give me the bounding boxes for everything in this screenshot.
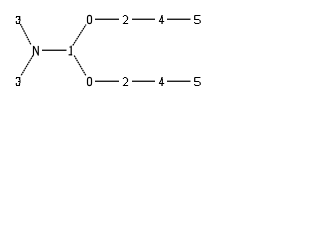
atom label 3 (bottom-left methyl) [16, 77, 21, 86]
wire O-2 bottom horizontal [95, 80, 119, 82]
atom label 4 (bottom) [159, 77, 164, 86]
wire 2-4 bottom horizontal [132, 80, 155, 82]
atom label 3 (top-left methyl) [16, 16, 21, 24]
wire 1-O top diagonal [73, 25, 86, 46]
atom O (top oxygen) [88, 16, 92, 24]
atom label 5 (bottom) [194, 77, 201, 86]
wire 1-O bottom diagonal [74, 56, 86, 76]
chemical structure diagram: (3)2N-1(-O-2-4-5)2 acetal-like skeleton [0, 0, 224, 100]
atom N (amine nitrogen) [33, 46, 39, 56]
wire 4-5 top horizontal [167, 18, 191, 20]
wire O-2 top horizontal [95, 18, 119, 20]
atom label 1 (central CH) [69, 46, 73, 56]
atom label 2 (top) [123, 15, 128, 24]
wire 4-5 bottom horizontal [167, 80, 191, 82]
wire N-3b diagonal [21, 56, 33, 76]
atom label 2 (bottom) [123, 77, 128, 86]
atom label 4 (top) [159, 15, 164, 24]
atom O (bottom oxygen) [88, 78, 92, 86]
atom label 5 (top) [194, 15, 201, 24]
wire 3a-N diagonal [20, 24, 31, 45]
wire 2-4 top horizontal [132, 18, 155, 20]
wire N-1 horizontal [42, 49, 67, 51]
